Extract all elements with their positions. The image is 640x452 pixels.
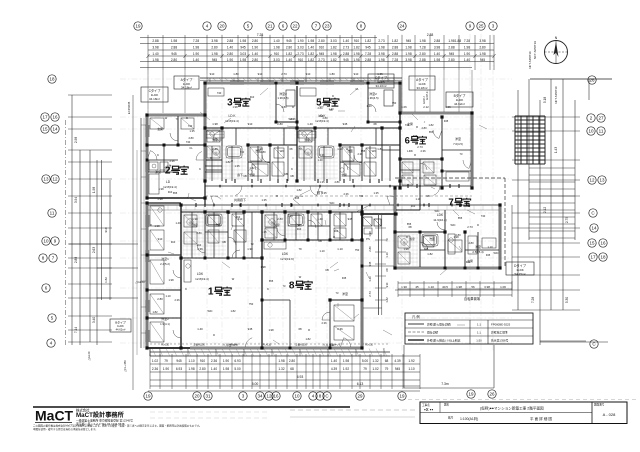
svg-text:D: D (406, 235, 408, 239)
corridor jamb marks (214, 185, 452, 207)
svg-text:1.98: 1.98 (330, 52, 336, 56)
svg-text:R: R (231, 159, 233, 163)
svg-text:740: 740 (217, 91, 222, 95)
svg-text:1.82: 1.82 (230, 309, 236, 313)
svg-text:D: D (150, 223, 152, 227)
service shaft and vertical dim column (362, 214, 396, 315)
svg-text:44.62m²: 44.62m² (454, 102, 465, 106)
svg-text:1.82: 1.82 (330, 58, 336, 62)
svg-text:洋室: 洋室 (455, 136, 461, 141)
svg-text:△GL±0: △GL±0 (87, 351, 91, 360)
svg-text:5.18: 5.18 (543, 97, 547, 103)
svg-text:910: 910 (197, 243, 202, 247)
svg-text:避難ハッチ: 避難ハッチ (329, 343, 342, 347)
svg-text:1.40: 1.40 (286, 58, 292, 62)
svg-text:平 面 詳 細 図: 平 面 詳 細 図 (530, 416, 552, 421)
svg-text:7.28: 7.28 (392, 58, 398, 62)
eave hatch above top wall (207, 78, 396, 80)
svg-text:2.88: 2.88 (392, 46, 398, 50)
unit 6 block (right upper) (400, 113, 472, 188)
svg-text:19: 19 (145, 394, 151, 399)
svg-text:2.73: 2.73 (343, 46, 349, 50)
svg-text:2.73: 2.73 (281, 72, 287, 76)
svg-text:1.82: 1.82 (330, 46, 336, 50)
svg-text:WIC: WIC (493, 251, 498, 255)
svg-text:14: 14 (52, 127, 58, 132)
svg-text:WIC: WIC (434, 209, 439, 213)
svg-text:1.06: 1.06 (500, 285, 506, 289)
svg-text:10: 10 (588, 129, 594, 134)
svg-text:34.18m²: 34.18m² (181, 86, 192, 90)
svg-text:UB: UB (318, 239, 322, 243)
svg-text:12: 12 (52, 177, 58, 182)
unit 6 area label box (446, 92, 473, 107)
wall junction blobs (145, 81, 501, 349)
svg-text:R: R (242, 103, 244, 107)
svg-text:68: 68 (290, 367, 294, 371)
svg-text:1.98: 1.98 (405, 52, 411, 56)
svg-text:Bタイプ: Bタイプ (115, 320, 126, 325)
svg-text:945: 945 (286, 39, 292, 43)
svg-text:1.98: 1.98 (378, 58, 384, 62)
svg-text:945: 945 (444, 119, 449, 123)
svg-text:UB: UB (243, 174, 247, 178)
svg-text:945: 945 (424, 247, 429, 251)
svg-text:655: 655 (269, 279, 274, 283)
MaCT logo (35, 408, 133, 427)
svg-text:18: 18 (600, 255, 606, 260)
svg-text:13: 13 (43, 177, 49, 182)
dashed line above title table (408, 399, 636, 401)
svg-text:910: 910 (104, 227, 108, 232)
svg-text:7.14: 7.14 (74, 327, 78, 333)
svg-text:945: 945 (395, 367, 401, 371)
svg-text:1.98: 1.98 (158, 187, 164, 191)
svg-text:D: D (292, 105, 294, 109)
svg-text:界壁施工規準: 界壁施工規準 (491, 331, 508, 335)
svg-text:1.96(4.5): 1.96(4.5) (367, 96, 378, 100)
svg-text:K: K (157, 153, 159, 157)
svg-text:1.40: 1.40 (175, 221, 181, 225)
svg-text:1:1: 1:1 (477, 331, 481, 335)
svg-text:16: 16 (273, 394, 279, 399)
svg-text:19: 19 (135, 24, 141, 29)
svg-text:洋室: 洋室 (342, 291, 348, 296)
svg-text:玄関: 玄関 (157, 127, 163, 131)
additional interior walls lower units (205, 212, 500, 348)
svg-text:●区 ●●: ●区 ●● (424, 408, 433, 412)
svg-text:12: 12 (589, 178, 595, 183)
svg-text:1.10: 1.10 (188, 359, 194, 363)
svg-text:68: 68 (385, 359, 389, 363)
svg-text:1.10: 1.10 (385, 252, 389, 258)
svg-text:1.35: 1.35 (373, 191, 379, 195)
svg-text:2.80: 2.80 (171, 58, 177, 62)
svg-text:洗: 洗 (169, 164, 172, 168)
svg-text:1.82: 1.82 (353, 46, 359, 50)
svg-text:945: 945 (368, 261, 372, 266)
svg-text:945: 945 (480, 58, 486, 62)
svg-text:2.36: 2.36 (152, 367, 158, 371)
tiny room labels set2 (157, 122, 473, 291)
svg-text:11.9(16.4): 11.9(16.4) (433, 218, 446, 222)
right dimension band (425, 51, 612, 345)
svg-text:740: 740 (405, 123, 410, 127)
svg-text:外壁(耐火構造) ※仕上别途: 外壁(耐火構造) ※仕上别途 (427, 339, 461, 343)
svg-text:740: 740 (481, 214, 486, 218)
svg-text:31: 31 (205, 394, 211, 399)
svg-text:玄関: 玄関 (249, 173, 255, 177)
svg-text:NFT-SPRT19: NFT-SPRT19 (528, 51, 532, 69)
svg-text:廊下: 廊下 (237, 173, 243, 177)
svg-text:2.80: 2.80 (260, 150, 266, 154)
svg-text:UB: UB (290, 174, 294, 178)
svg-text:910: 910 (171, 240, 176, 244)
top grid reference circles (134, 22, 497, 30)
svg-text:910: 910 (210, 72, 215, 76)
svg-text:12.9(19.6): 12.9(19.6) (280, 257, 294, 261)
svg-text:1.98: 1.98 (188, 367, 194, 371)
svg-text:1.40: 1.40 (464, 58, 470, 62)
left dimension band (66, 95, 139, 372)
svg-text:945: 945 (365, 46, 371, 50)
svg-text:1.98: 1.98 (343, 359, 349, 363)
svg-text:2.80: 2.80 (277, 217, 283, 221)
additional interior walls / texture upper units (205, 128, 472, 170)
svg-text:LD: LD (166, 180, 171, 184)
svg-text:WC: WC (280, 149, 285, 153)
svg-text:2.80: 2.80 (455, 233, 461, 237)
svg-text:2.80: 2.80 (252, 58, 258, 62)
svg-text:910: 910 (298, 58, 304, 62)
svg-text:26: 26 (589, 78, 595, 83)
svg-text:1.82: 1.82 (308, 52, 314, 56)
svg-text:910: 910 (236, 215, 241, 219)
svg-text:2.73: 2.73 (297, 52, 303, 56)
bottom separator rule (33, 406, 350, 408)
svg-text:FP060BE-9225: FP060BE-9225 (491, 323, 511, 327)
svg-text:1.06: 1.06 (445, 105, 451, 109)
svg-text:7: 7 (448, 198, 453, 209)
svg-text:12.8(19.4): 12.8(19.4) (195, 277, 209, 281)
svg-text:2.80: 2.80 (368, 246, 372, 252)
svg-text:79: 79 (298, 147, 302, 151)
svg-text:1.82: 1.82 (392, 39, 398, 43)
left plan-edge helper lines (127, 41, 537, 390)
svg-text:655: 655 (429, 130, 434, 134)
svg-text:1.82: 1.82 (104, 277, 108, 283)
svg-text:1.40: 1.40 (211, 367, 217, 371)
svg-text:1.82: 1.82 (365, 39, 371, 43)
svg-text:自転車置場: 自転車置場 (464, 296, 481, 301)
svg-text:20: 20 (194, 394, 200, 399)
svg-text:3.98: 3.98 (152, 46, 158, 50)
svg-text:NFT-SPRT19: NFT-SPRT19 (533, 41, 537, 59)
svg-text:1.98: 1.98 (192, 217, 198, 221)
svg-text:29: 29 (357, 394, 363, 399)
svg-text:945: 945 (343, 122, 348, 126)
svg-text:WIC: WIC (329, 201, 334, 205)
svg-text:1.98: 1.98 (479, 52, 485, 56)
leader arrows speckle (164, 106, 487, 344)
svg-text:2.36: 2.36 (174, 298, 180, 302)
svg-text:8: 8 (289, 281, 295, 292)
svg-text:2.80: 2.80 (468, 241, 474, 245)
svg-text:5.00: 5.00 (234, 367, 240, 371)
svg-text:UB: UB (222, 240, 226, 244)
svg-text:945: 945 (486, 253, 491, 257)
svg-text:7.3m: 7.3m (441, 382, 449, 386)
svg-text:945: 945 (449, 52, 455, 56)
wet area tile hatching (183, 146, 440, 266)
svg-text:洋室2: 洋室2 (161, 316, 169, 321)
unit 3: interior partitions (205, 83, 297, 181)
svg-text:2.88: 2.88 (227, 39, 233, 43)
svg-text:△FL+450: △FL+450 (123, 360, 127, 372)
svg-text:玄関: 玄関 (341, 173, 347, 177)
svg-text:7.28: 7.28 (257, 33, 264, 37)
extra type label box top (368, 74, 394, 88)
svg-text:CL: CL (227, 211, 231, 215)
svg-text:1.02: 1.02 (372, 367, 378, 371)
svg-text:24: 24 (399, 24, 405, 29)
kitchen counters (184, 131, 455, 282)
svg-text:20: 20 (219, 24, 225, 29)
svg-text:1.98: 1.98 (378, 46, 384, 50)
svg-text:740: 740 (359, 194, 364, 198)
svg-text:凡 例: 凡 例 (412, 314, 420, 319)
svg-text:23: 23 (324, 24, 330, 29)
title block table (420, 402, 627, 424)
svg-text:1.82: 1.82 (385, 297, 389, 303)
floor plan: building outline upper block (units 3,5) (200, 78, 402, 205)
svg-text:3.03: 3.03 (273, 58, 279, 62)
svg-text:1.10: 1.10 (319, 249, 325, 253)
svg-text:1.88: 1.88 (455, 39, 461, 43)
svg-text:5.00: 5.00 (362, 359, 368, 363)
unit 8 interior (262, 212, 362, 348)
svg-text:WC: WC (372, 149, 377, 153)
svg-text:1.82: 1.82 (330, 101, 336, 105)
svg-text:34.18m²: 34.18m² (149, 97, 160, 101)
svg-text:2.80: 2.80 (211, 46, 217, 50)
svg-text:1.40: 1.40 (193, 58, 199, 62)
balcony hatch bottom (150, 344, 390, 356)
svg-text:12: 12 (266, 394, 272, 399)
svg-text:間仕切壁: 間仕切壁 (427, 331, 438, 335)
svg-text:1.35: 1.35 (319, 180, 325, 184)
svg-text:2.80: 2.80 (199, 367, 205, 371)
svg-text:11: 11 (599, 129, 604, 134)
svg-text:79: 79 (363, 367, 367, 371)
door swing arcs extra (147, 151, 472, 348)
svg-text:手摺H1100: 手摺H1100 (193, 343, 205, 347)
small circles (sinks/stoves) (158, 132, 453, 268)
svg-text:3.98: 3.98 (378, 52, 384, 56)
svg-text:1LDK: 1LDK (117, 324, 124, 328)
svg-text:34.10m²: 34.10m² (375, 84, 386, 88)
svg-text:1.98: 1.98 (308, 39, 314, 43)
svg-text:1.98: 1.98 (92, 187, 96, 193)
svg-text:7.28: 7.28 (464, 39, 470, 43)
svg-text:3.98: 3.98 (211, 39, 217, 43)
svg-text:945: 945 (176, 359, 182, 363)
svg-text:2.80: 2.80 (281, 105, 287, 109)
svg-text:3.94: 3.94 (74, 197, 78, 203)
svg-text:2.88: 2.88 (392, 52, 398, 56)
svg-text:MaCT: MaCT (35, 408, 74, 424)
svg-text:1.98: 1.98 (405, 46, 411, 50)
svg-text:2.75: 2.75 (565, 217, 569, 223)
svg-text:2.36: 2.36 (337, 327, 343, 331)
svg-text:1.98: 1.98 (464, 46, 470, 50)
svg-text:1.98: 1.98 (273, 46, 279, 50)
svg-text:655: 655 (407, 222, 412, 226)
svg-text:R: R (276, 194, 278, 198)
svg-text:6: 6 (405, 134, 410, 145)
svg-text:1.40: 1.40 (434, 52, 440, 56)
svg-text:910: 910 (200, 359, 206, 363)
svg-text:NFT-SPRT19: NFT-SPRT19 (554, 86, 558, 104)
svg-text:UB: UB (426, 194, 430, 198)
svg-text:17: 17 (590, 255, 596, 260)
svg-text:750: 750 (249, 302, 254, 306)
svg-text:1.98: 1.98 (212, 122, 218, 126)
units 1 and 8 lower block outline (147, 203, 362, 348)
svg-text:2.98: 2.98 (74, 137, 78, 143)
svg-text:FL+110: FL+110 (161, 344, 170, 347)
svg-text:1.02: 1.02 (152, 359, 158, 363)
svg-text:1.98: 1.98 (154, 224, 160, 228)
svg-text:1.40: 1.40 (307, 122, 313, 126)
door frames (white gaps with jambs) (196, 179, 469, 207)
svg-text:1.82: 1.82 (428, 123, 434, 127)
svg-text:洗面: 洗面 (215, 223, 221, 227)
signature dashed lines (150, 410, 415, 418)
svg-text:7.28: 7.28 (531, 297, 535, 303)
svg-text:2.80: 2.80 (318, 39, 324, 43)
svg-text:750: 750 (319, 114, 324, 118)
svg-text:2.88: 2.88 (419, 58, 425, 62)
svg-text:1.10: 1.10 (415, 197, 421, 201)
svg-text:1.98: 1.98 (434, 58, 440, 62)
svg-text:K: K (185, 287, 187, 291)
svg-text:1.98: 1.98 (403, 247, 409, 251)
svg-text:1.32: 1.32 (372, 359, 378, 363)
svg-text:2.88: 2.88 (365, 58, 371, 62)
svg-text:図名: 図名 (444, 403, 450, 407)
balcony tiny texts (161, 343, 374, 347)
svg-text:3.03: 3.03 (330, 39, 336, 43)
descending ticks from top band to plan (148, 70, 472, 113)
svg-text:2.12: 2.12 (423, 105, 429, 109)
svg-text:1.10: 1.10 (165, 294, 171, 298)
svg-text:WIC: WIC (207, 309, 212, 313)
svg-text:3.98: 3.98 (405, 58, 411, 62)
svg-text:1.98: 1.98 (260, 265, 266, 269)
svg-text:1.98: 1.98 (419, 39, 425, 43)
svg-text:56: 56 (471, 285, 475, 289)
svg-text:1: 1 (208, 287, 214, 298)
svg-text:2.80: 2.80 (286, 46, 292, 50)
svg-text:1.35: 1.35 (234, 164, 240, 168)
svg-text:1.98: 1.98 (456, 285, 462, 289)
svg-text:2.88: 2.88 (434, 39, 440, 43)
svg-text:LDK: LDK (197, 272, 204, 276)
svg-text:本図を使用・複写する場合は当社の承諾を必要とします。: 本図を使用・複写する場合は当社の承諾を必要とします。 (33, 427, 98, 431)
svg-text:WIC: WIC (288, 117, 293, 121)
svg-text:1.40: 1.40 (328, 107, 334, 111)
left balcony strip (141, 118, 147, 348)
svg-text:共用廊下: 共用廊下 (234, 197, 246, 202)
svg-text:10: 10 (43, 239, 49, 244)
svg-text:910: 910 (158, 237, 163, 241)
svg-text:1.10: 1.10 (337, 147, 343, 151)
svg-text:FL+110: FL+110 (263, 344, 272, 347)
right ladder extra rungs (529, 168, 575, 238)
svg-text:2.80: 2.80 (421, 126, 427, 130)
svg-text:2.36: 2.36 (197, 247, 203, 251)
svg-text:1.98: 1.98 (152, 58, 158, 62)
svg-text:1.35: 1.35 (261, 198, 267, 202)
svg-text:1.82: 1.82 (308, 58, 314, 62)
svg-text:1.98: 1.98 (211, 52, 217, 56)
svg-text:21: 21 (267, 24, 273, 29)
window marks (146, 81, 394, 342)
svg-text:2.88: 2.88 (448, 46, 454, 50)
svg-text:2.80: 2.80 (227, 52, 233, 56)
legend table (405, 313, 533, 344)
svg-text:1.40: 1.40 (227, 46, 233, 50)
svg-text:2.80: 2.80 (157, 297, 163, 301)
svg-text:2.80: 2.80 (419, 52, 425, 56)
svg-text:79: 79 (298, 247, 302, 251)
svg-text:19: 19 (468, 392, 474, 397)
svg-text:945: 945 (406, 39, 412, 43)
type label box (C type, upper-left) (141, 76, 435, 102)
svg-text:2.73: 2.73 (378, 39, 384, 43)
svg-text:1.92: 1.92 (408, 359, 414, 363)
svg-text:1.98: 1.98 (223, 367, 229, 371)
svg-text:1.40: 1.40 (252, 52, 258, 56)
svg-text:25: 25 (478, 24, 484, 29)
svg-text:68: 68 (298, 327, 302, 331)
svg-text:浴室: 浴室 (304, 138, 310, 142)
svg-text:1.90: 1.90 (193, 52, 199, 56)
right lower area marks (395, 205, 534, 301)
svg-text:LDK: LDK (407, 149, 413, 153)
svg-text:34: 34 (257, 394, 263, 399)
svg-text:物干金物: 物干金物 (228, 343, 238, 347)
svg-text:1.98: 1.98 (353, 58, 359, 62)
svg-text:1.98: 1.98 (278, 359, 284, 363)
dense cell walls upper wet rows (192, 146, 390, 258)
svg-text:1.9(4.1): 1.9(4.1) (160, 322, 170, 326)
svg-text:1.32: 1.32 (278, 367, 284, 371)
svg-text:1.82: 1.82 (286, 52, 292, 56)
outer wall double-line overlay (147, 83, 500, 348)
bottom dimension band (135, 280, 586, 391)
svg-text:15: 15 (589, 241, 595, 246)
svg-text:1.98: 1.98 (171, 39, 177, 43)
compass north arrow (545, 36, 568, 64)
svg-text:1.98: 1.98 (240, 58, 246, 62)
svg-text:1.90: 1.90 (227, 58, 233, 62)
svg-text:手摺H1100: 手摺H1100 (295, 343, 307, 347)
unit 1 interior (160, 212, 262, 326)
svg-text:2.88: 2.88 (152, 39, 158, 43)
svg-text:945: 945 (248, 327, 253, 331)
